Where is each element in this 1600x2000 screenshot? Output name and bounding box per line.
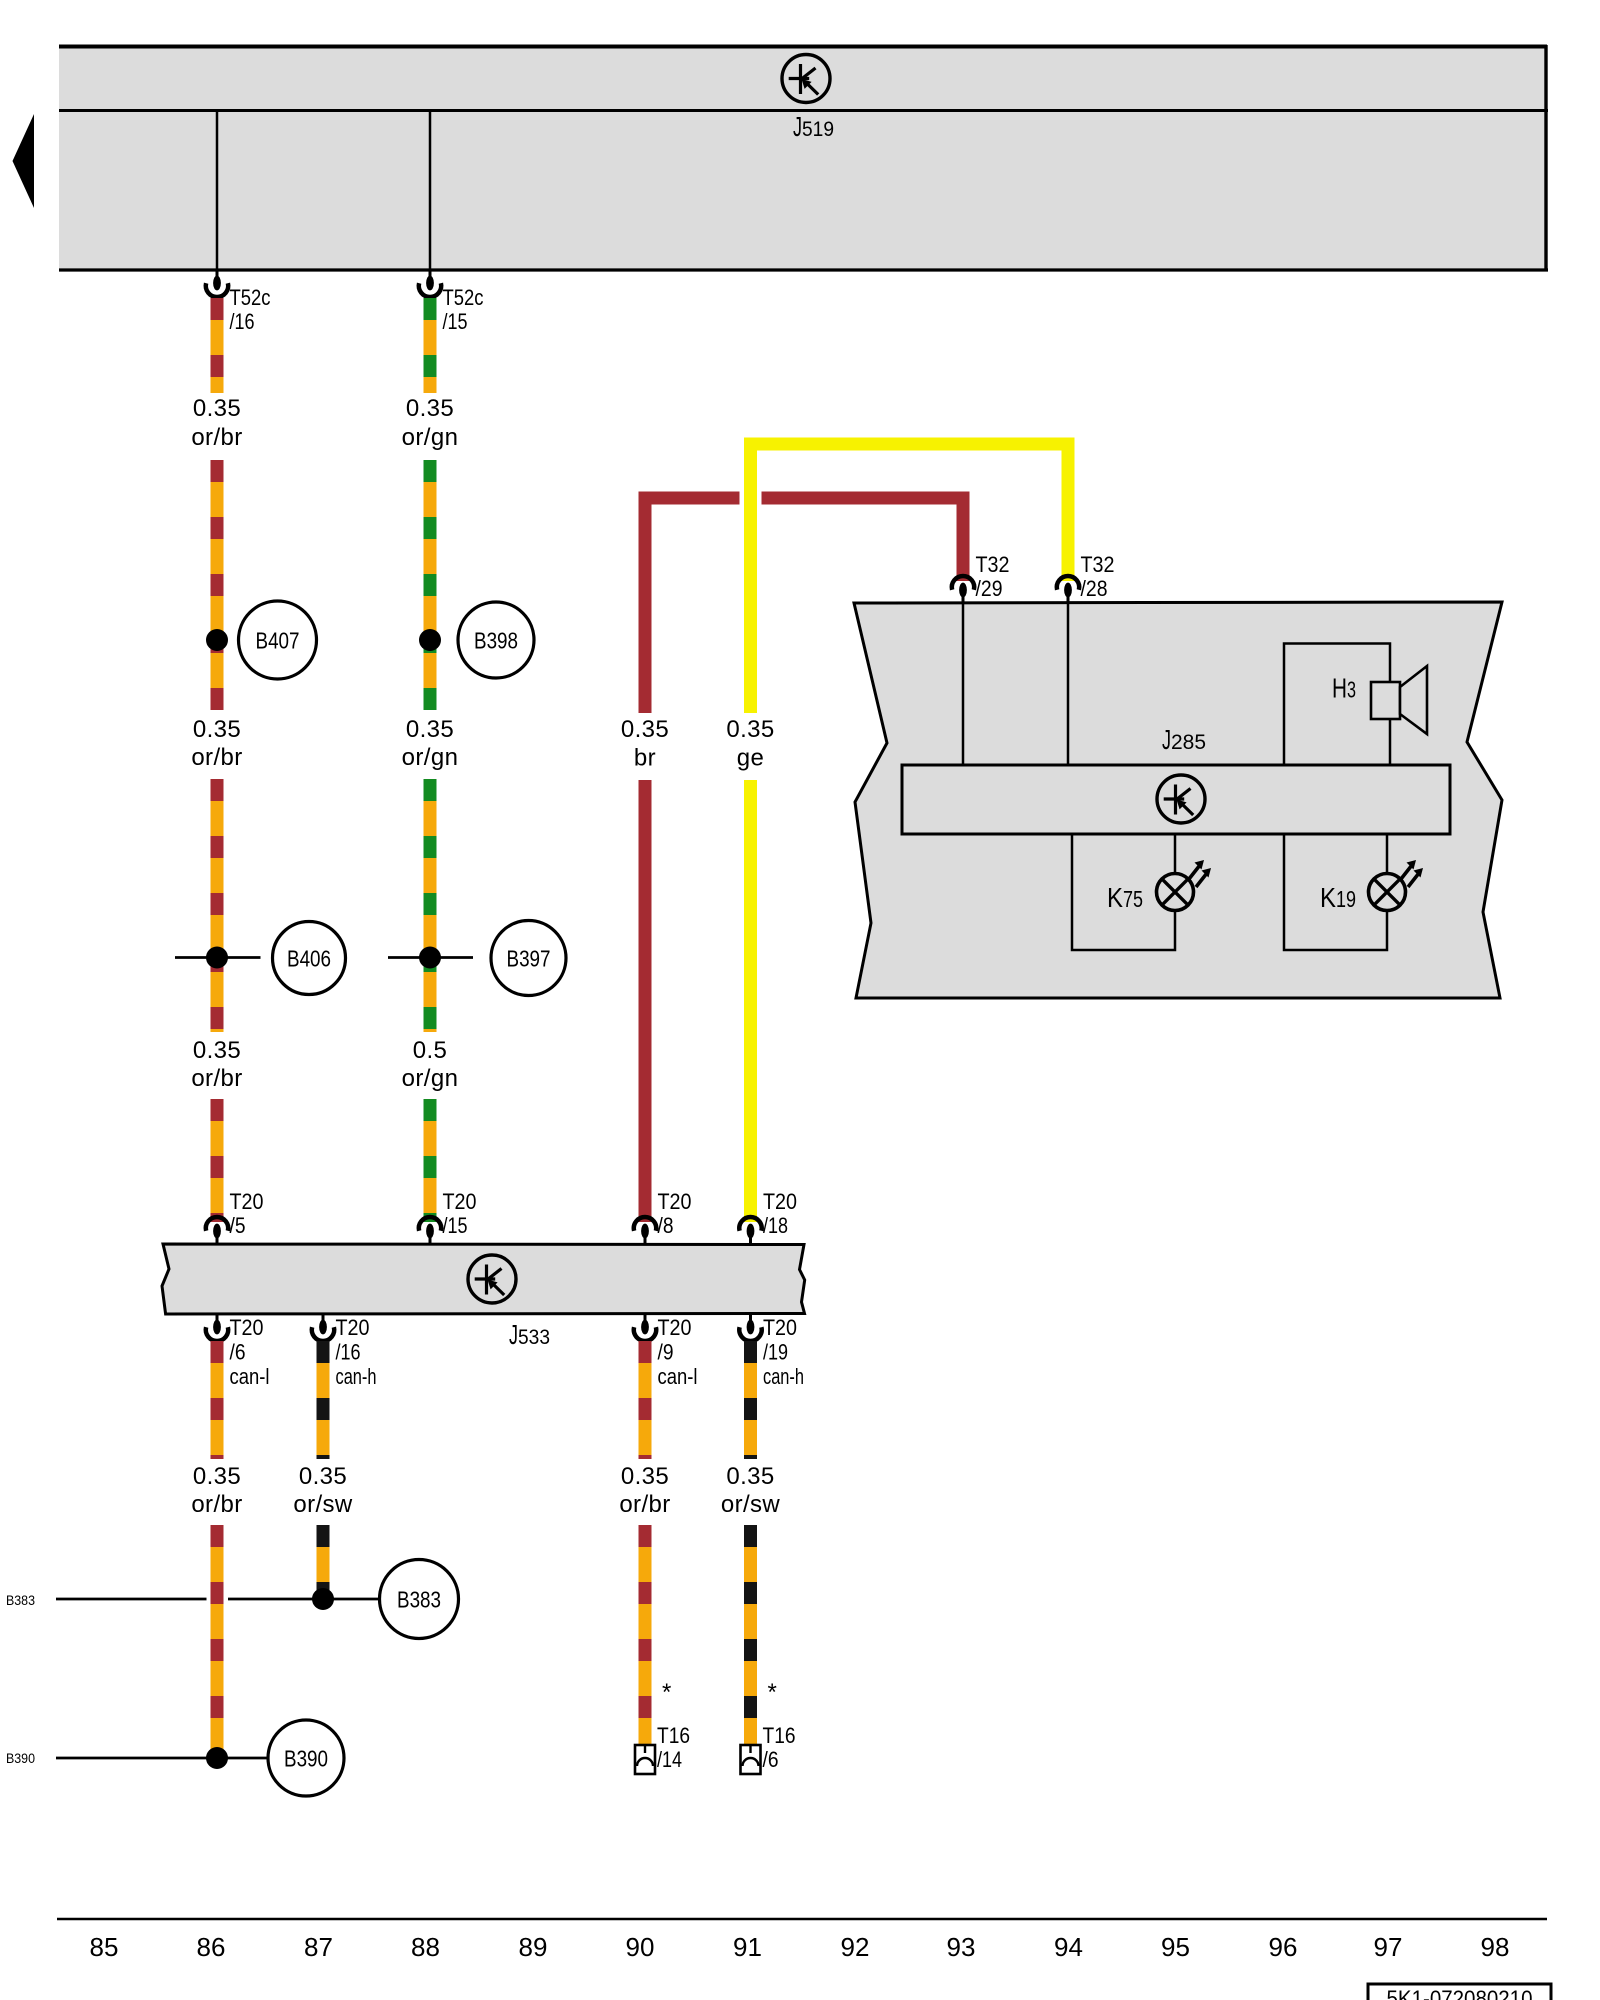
J285 internal line from T32/28 xyxy=(1067,598,1070,765)
wire br (solid) upper segment with bend to T32/29 xyxy=(645,498,740,713)
wire or/br seg1 xyxy=(211,298,224,393)
control unit symbol in J519 xyxy=(782,55,830,103)
svg-text:/19: /19 xyxy=(763,1340,788,1365)
svg-text:/8: /8 xyxy=(658,1213,674,1238)
svg-text:or/sw: or/sw xyxy=(293,1491,353,1518)
svg-text:or/gn: or/gn xyxy=(402,1065,459,1092)
connector T20/18 xyxy=(739,1217,761,1244)
svg-text:T20: T20 xyxy=(658,1315,692,1340)
K19 lamp circuit lines xyxy=(1284,834,1387,950)
wire or/sw can-h seg2 xyxy=(317,1525,330,1599)
control unit J519 body xyxy=(59,46,1547,270)
svg-text:K75: K75 xyxy=(1107,882,1143,913)
connector T52c/15 xyxy=(419,270,441,297)
svg-text:96: 96 xyxy=(1269,1932,1298,1962)
connector T32/28 xyxy=(1057,576,1079,603)
svg-text:0.35: 0.35 xyxy=(621,1463,669,1490)
connector T20/19 can-h xyxy=(739,1314,761,1341)
svg-text:93: 93 xyxy=(947,1932,976,1962)
svg-text:98: 98 xyxy=(1481,1932,1510,1962)
svg-text:J533: J533 xyxy=(509,1319,550,1350)
svg-text:T16: T16 xyxy=(657,1723,690,1748)
wire or/br can-l right seg1 xyxy=(639,1341,652,1459)
J519 internal pin line T52c/15 xyxy=(429,112,432,270)
node B383 wire line (after crossing) xyxy=(228,1598,380,1601)
speaker H3 symbol xyxy=(1371,682,1400,719)
svg-text:0.35: 0.35 xyxy=(726,716,774,743)
lamp K19 xyxy=(1369,860,1424,911)
svg-text:/15: /15 xyxy=(443,309,468,334)
svg-text:0.35: 0.35 xyxy=(406,395,454,422)
bus bar inside J285 xyxy=(902,765,1450,834)
wire or/gn seg2 xyxy=(424,460,437,710)
node circle B398 xyxy=(458,602,534,678)
wire ge (solid) lower segment xyxy=(744,780,757,1222)
node circle B397 xyxy=(491,921,566,996)
svg-text:94: 94 xyxy=(1054,1932,1083,1962)
svg-text:/28: /28 xyxy=(1081,576,1108,601)
connector T20/6 can-l xyxy=(206,1314,228,1341)
svg-text:T32: T32 xyxy=(1081,552,1115,577)
svg-text:/6: /6 xyxy=(230,1340,246,1365)
svg-text:87: 87 xyxy=(304,1932,333,1962)
control unit symbol in J285 xyxy=(1157,775,1205,823)
svg-text:89: 89 xyxy=(519,1932,548,1962)
svg-text:H3: H3 xyxy=(1332,673,1356,704)
svg-text:T20: T20 xyxy=(230,1315,264,1340)
H3 speaker circuit lines xyxy=(1284,644,1390,766)
svg-text:86: 86 xyxy=(197,1932,226,1962)
wire or/br seg4 xyxy=(211,1099,224,1222)
connector T20/16 can-h xyxy=(312,1314,334,1341)
svg-text:*: * xyxy=(768,1679,778,1706)
connector T32/29 xyxy=(952,576,974,603)
svg-text:B390: B390 xyxy=(284,1746,328,1772)
node B383 wire line xyxy=(56,1598,207,1601)
svg-text:can-h: can-h xyxy=(763,1364,804,1389)
drawing number box xyxy=(1368,1984,1551,2000)
node circle B406 xyxy=(273,922,346,995)
svg-text:B383: B383 xyxy=(397,1587,441,1613)
connector T16 /6 xyxy=(741,1745,761,1774)
svg-text:T16: T16 xyxy=(763,1723,796,1748)
connector T16 /14 xyxy=(635,1745,655,1774)
svg-text:or/br: or/br xyxy=(619,1491,670,1518)
svg-text:/18: /18 xyxy=(763,1213,788,1238)
svg-text:97: 97 xyxy=(1374,1932,1403,1962)
J285 internal line from T32/29 xyxy=(962,598,965,765)
wire or/br seg3 xyxy=(211,779,224,1032)
svg-text:B383: B383 xyxy=(6,1592,35,1608)
svg-text:/16: /16 xyxy=(336,1340,361,1365)
wire or/sw can-h right seg2 xyxy=(744,1525,757,1745)
svg-text:/5: /5 xyxy=(230,1213,246,1238)
wire or/gn seg1 xyxy=(424,298,437,393)
svg-text:or/br: or/br xyxy=(191,424,242,451)
svg-text:0.35: 0.35 xyxy=(406,716,454,743)
wire or/gn seg3 xyxy=(424,779,437,1032)
svg-text:B398: B398 xyxy=(474,628,518,654)
svg-text:T32: T32 xyxy=(976,552,1010,577)
wire or/br can-l seg2 xyxy=(211,1525,224,1758)
svg-text:can-l: can-l xyxy=(230,1364,270,1389)
control unit J285 block outline xyxy=(854,602,1502,998)
svg-text:0.35: 0.35 xyxy=(726,1463,774,1490)
junction dot B407 xyxy=(206,629,228,651)
svg-text:br: br xyxy=(634,745,656,772)
wire br (solid) lower segment xyxy=(639,780,652,1222)
junction dot B390 xyxy=(206,1747,228,1769)
junction dot B397 xyxy=(419,947,441,969)
svg-text:ge: ge xyxy=(737,745,765,772)
connector T20/5 xyxy=(206,1217,228,1244)
wire br continues after crossing xyxy=(762,498,964,581)
svg-text:or/gn: or/gn xyxy=(402,424,459,451)
svg-text:0.5: 0.5 xyxy=(413,1037,448,1064)
node circle B390 xyxy=(268,1720,344,1796)
svg-text:T52c: T52c xyxy=(443,285,484,310)
svg-text:0.35: 0.35 xyxy=(193,716,241,743)
svg-text:90: 90 xyxy=(626,1932,655,1962)
wire or/gn seg4 xyxy=(424,1099,437,1222)
lamp K75 xyxy=(1157,860,1212,911)
node B397 crossing line xyxy=(388,956,473,959)
svg-text:/9: /9 xyxy=(658,1340,674,1365)
J519 internal pin line T52c/16 xyxy=(216,112,219,270)
wire or/sw can-h seg1 xyxy=(317,1341,330,1459)
svg-text:92: 92 xyxy=(841,1932,870,1962)
svg-text:T20: T20 xyxy=(443,1189,477,1214)
svg-text:can-h: can-h xyxy=(336,1364,377,1389)
svg-text:0.35: 0.35 xyxy=(299,1463,347,1490)
junction dot B406 xyxy=(206,947,228,969)
connector T20/15 xyxy=(419,1217,441,1244)
svg-text:B390: B390 xyxy=(6,1750,35,1766)
svg-text:/16: /16 xyxy=(230,309,255,334)
svg-text:T20: T20 xyxy=(658,1189,692,1214)
svg-text:0.35: 0.35 xyxy=(193,1463,241,1490)
svg-text:/6: /6 xyxy=(763,1747,779,1772)
node B406 crossing line xyxy=(175,956,261,959)
wire or/br seg2 xyxy=(211,460,224,710)
node circle B383 xyxy=(380,1560,459,1639)
connector T20/8 xyxy=(634,1217,656,1244)
svg-text:can-l: can-l xyxy=(658,1364,698,1389)
svg-text:85: 85 xyxy=(90,1932,119,1962)
svg-text:or/gn: or/gn xyxy=(402,744,459,771)
svg-text:B407: B407 xyxy=(256,628,300,654)
bottom scale line xyxy=(57,1918,1547,1921)
svg-text:88: 88 xyxy=(411,1932,440,1962)
svg-text:T20: T20 xyxy=(763,1315,797,1340)
svg-text:*: * xyxy=(662,1679,672,1706)
svg-text:0.35: 0.35 xyxy=(621,716,669,743)
svg-text:or/br: or/br xyxy=(191,744,242,771)
svg-text:95: 95 xyxy=(1161,1932,1190,1962)
svg-text:0.35: 0.35 xyxy=(193,395,241,422)
control unit symbol in J533 xyxy=(468,1255,516,1303)
junction dot B383 xyxy=(312,1588,334,1610)
wire or/sw can-h right seg1 xyxy=(744,1341,757,1459)
svg-text:T52c: T52c xyxy=(230,285,271,310)
svg-text:91: 91 xyxy=(733,1932,762,1962)
svg-text:or/sw: or/sw xyxy=(721,1491,781,1518)
svg-text:K19: K19 xyxy=(1320,882,1356,913)
connector T52c/16 xyxy=(206,270,228,297)
svg-text:B397: B397 xyxy=(507,946,551,972)
wire or/br can-l seg1 xyxy=(211,1341,224,1459)
wire or/br can-l right seg2 xyxy=(639,1525,652,1745)
node B390 wire line xyxy=(56,1757,268,1760)
svg-text:0.35: 0.35 xyxy=(193,1037,241,1064)
connector T20/9 can-l xyxy=(634,1314,656,1341)
svg-text:or/br: or/br xyxy=(191,1065,242,1092)
node circle B407 xyxy=(239,601,317,679)
svg-text:T20: T20 xyxy=(230,1189,264,1214)
svg-text:5K1-072080210: 5K1-072080210 xyxy=(1387,1986,1533,2000)
K75 lamp circuit lines xyxy=(1072,834,1175,950)
svg-text:T20: T20 xyxy=(763,1189,797,1214)
control unit J533 (gateway) body xyxy=(162,1244,805,1314)
svg-text:T20: T20 xyxy=(336,1315,370,1340)
junction dot B398 xyxy=(419,629,441,651)
svg-text:/29: /29 xyxy=(976,576,1003,601)
svg-text:B406: B406 xyxy=(287,946,331,972)
wire ge (solid) upper segment with bend to T32/28 xyxy=(751,444,1069,713)
direction arrow (left) xyxy=(13,114,35,208)
svg-text:or/br: or/br xyxy=(191,1491,242,1518)
svg-text:/15: /15 xyxy=(443,1213,468,1238)
svg-text:/14: /14 xyxy=(657,1747,682,1772)
